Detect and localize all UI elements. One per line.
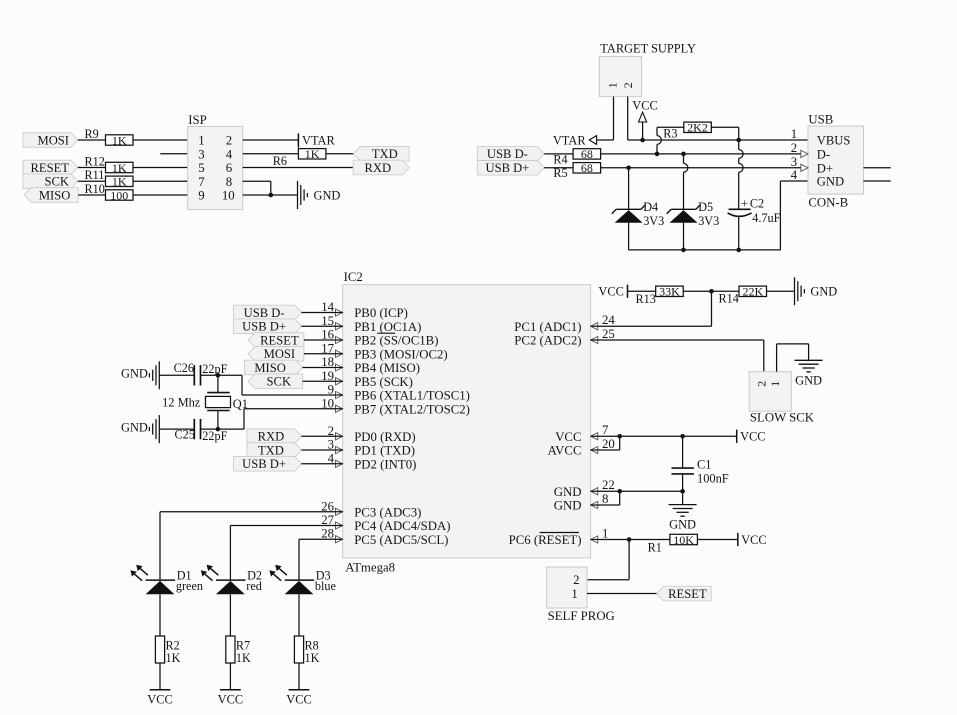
svg-text:PD0 (RXD): PD0 (RXD) <box>354 430 416 444</box>
svg-text:VCC: VCC <box>286 692 311 706</box>
net tag TXD to PD1 <box>247 443 302 458</box>
svg-text:GND: GND <box>554 499 582 513</box>
wire R10 to ISP pin 9 <box>133 194 188 196</box>
svg-text:PB4 (MISO): PB4 (MISO) <box>354 361 420 375</box>
svg-text:VCC: VCC <box>218 692 243 706</box>
supply VCC below R2 <box>147 690 172 707</box>
wire pin 25 to slow-sck jumper <box>591 340 764 372</box>
wire TXD to pin 3 <box>301 449 342 451</box>
svg-text:C26: C26 <box>174 361 194 375</box>
svg-text:R5: R5 <box>553 166 567 180</box>
wire slow-sck pin1 to ground <box>777 344 809 372</box>
wire pin 8 to pin 22 net <box>591 491 620 505</box>
resistor R3 2K2 <box>657 121 739 154</box>
resistor R14 22K <box>719 285 767 306</box>
pin 10 PB7 (XTAL2/TOSC2) <box>321 396 470 416</box>
crystal Q1 12 Mhz <box>162 375 248 429</box>
junction divider node <box>709 289 714 294</box>
svg-text:RESET: RESET <box>260 333 299 347</box>
svg-text:USB D+: USB D+ <box>242 320 286 334</box>
wire divider node to R14 <box>712 290 740 292</box>
capacitor C26 22pF <box>174 361 228 385</box>
wire pin to D1 <box>160 512 343 580</box>
net tag MOSI to PB3 <box>248 346 304 361</box>
svg-text:VBUS: VBUS <box>817 134 851 148</box>
pin 26 PC3 (ADC3) <box>321 499 421 519</box>
svg-text:1: 1 <box>791 127 797 141</box>
pin 14 PB0 (ICP) <box>321 300 408 320</box>
svg-text:R4: R4 <box>553 152 567 166</box>
svg-text:PB0 (ICP): PB0 (ICP) <box>354 306 408 320</box>
wire ISP pin 4 to R6 <box>243 153 299 155</box>
wire GND to C25 <box>159 428 193 430</box>
pin 19 PB5 (SCK) <box>321 369 413 389</box>
LED D1 green <box>130 565 203 595</box>
svg-text:PD1 (TXD): PD1 (TXD) <box>354 444 415 458</box>
net tag USB D+ to PD2 <box>234 456 302 471</box>
junction C2 branch on rail <box>736 138 741 143</box>
wire R9 to ISP pin 1 <box>133 139 188 141</box>
svg-text:PB1 (OC1A): PB1 (OC1A) <box>354 320 421 334</box>
svg-text:USB D-: USB D- <box>487 147 528 161</box>
net tag USB D- to PB0 <box>234 305 302 320</box>
resistor R13 33K <box>636 285 684 306</box>
svg-text:CON-B: CON-B <box>808 195 848 209</box>
junction C1 bottom <box>680 489 685 494</box>
svg-text:1K: 1K <box>112 175 127 189</box>
wire MISO to pin 18 <box>302 367 342 369</box>
svg-text:VCC: VCC <box>740 430 765 444</box>
wire USB shield stub lower <box>864 180 891 182</box>
svg-text:22pF: 22pF <box>202 362 227 376</box>
svg-text:R9: R9 <box>85 127 99 141</box>
svg-text:PB6 (XTAL1/TOSC1): PB6 (XTAL1/TOSC1) <box>354 389 470 403</box>
junction C1 top <box>680 434 685 439</box>
svg-text:+: + <box>741 197 748 211</box>
wire R6 to TXD tag <box>326 153 354 155</box>
wire ground rail to USB GND pin <box>780 181 808 250</box>
ground GND at C25 <box>121 415 159 443</box>
svg-text:D-: D- <box>817 148 830 162</box>
diode D4 zener 3V3 <box>612 168 664 250</box>
net tag TXD at ISP <box>354 146 410 161</box>
svg-text:GND: GND <box>817 175 844 189</box>
svg-text:22K: 22K <box>742 285 763 299</box>
net tag SCK to PB5 <box>248 374 302 389</box>
wire ISP pin 10 to ground <box>243 194 298 196</box>
wire R7 to VCC <box>229 663 231 690</box>
svg-text:blue: blue <box>315 579 336 593</box>
svg-text:24: 24 <box>602 313 615 327</box>
wire C1 bottom to ground <box>682 491 684 504</box>
svg-text:SCK: SCK <box>45 175 70 189</box>
wire D1 to R2 <box>159 594 161 636</box>
svg-text:1: 1 <box>606 82 620 88</box>
svg-text:USB D+: USB D+ <box>242 457 286 471</box>
svg-text:GND: GND <box>669 518 696 532</box>
jumper J target supply <box>599 41 696 96</box>
jumper SLOW SCK <box>749 372 815 425</box>
net tag SCK <box>23 174 78 189</box>
pin 4 PD2 (INT0) <box>328 451 417 471</box>
svg-text:SCK: SCK <box>267 375 292 389</box>
svg-text:1K: 1K <box>305 147 320 161</box>
svg-text:2: 2 <box>755 381 769 387</box>
wire D+ line to USB connector <box>601 167 802 169</box>
net tag RXD at ISP <box>353 160 409 175</box>
capacitor C2 4.7uF <box>728 140 781 250</box>
svg-text:22pF: 22pF <box>202 429 227 443</box>
wire D2 to R7 <box>229 594 231 636</box>
svg-text:USB: USB <box>808 113 833 127</box>
wire C25 to XTAL2 net <box>201 409 343 429</box>
net tag RESET at self-prog <box>657 586 711 601</box>
svg-text:red: red <box>246 579 262 593</box>
svg-text:D4: D4 <box>643 200 658 214</box>
LED D3 blue <box>269 565 335 595</box>
svg-text:68: 68 <box>581 161 593 175</box>
net tag USB D+ upper <box>477 161 544 176</box>
svg-text:TXD: TXD <box>372 147 398 161</box>
wire pin 7 to VCC <box>591 435 737 437</box>
svg-text:green: green <box>176 579 203 593</box>
svg-text:R14: R14 <box>719 292 739 306</box>
wire pin 22 to C1 bottom <box>591 490 683 492</box>
svg-text:3V3: 3V3 <box>643 214 664 228</box>
svg-text:D+: D+ <box>817 161 833 175</box>
svg-text:ISP: ISP <box>188 113 207 127</box>
op-amp IC2 ATmega8 body <box>343 270 591 575</box>
svg-text:5: 5 <box>198 161 204 175</box>
net tag MISO <box>24 188 78 203</box>
svg-text:PC6 (RESET): PC6 (RESET) <box>509 533 582 547</box>
connector ISP header <box>188 113 243 209</box>
svg-text:GND: GND <box>121 367 148 381</box>
resistor R9 1K <box>85 127 134 148</box>
resistor R11 1K <box>85 168 134 189</box>
svg-text:GND: GND <box>314 188 341 202</box>
svg-text:2: 2 <box>621 82 635 88</box>
ground GND at ISP <box>298 181 341 209</box>
svg-text:2: 2 <box>226 134 232 148</box>
svg-text:SELF PROG: SELF PROG <box>548 609 615 623</box>
supply VCC below R8 <box>286 690 311 707</box>
net tag USB D+ to PB1 <box>234 319 302 334</box>
svg-text:GND: GND <box>121 420 148 434</box>
wire pin 1 to R1 <box>591 539 670 541</box>
svg-text:PC1 (ADC1): PC1 (ADC1) <box>514 320 581 334</box>
svg-text:RESET: RESET <box>668 587 707 601</box>
resistor R1 10K <box>648 533 698 555</box>
wire pin to D2 <box>230 526 342 581</box>
pin 9 PB6 (XTAL1/TOSC1) <box>328 383 470 403</box>
svg-text:1: 1 <box>198 134 204 148</box>
wire R14 to ground <box>767 290 795 292</box>
svg-text:RESET: RESET <box>31 161 70 175</box>
supply VTAR at ISP <box>298 133 335 147</box>
supply VCC at R13 <box>598 285 627 299</box>
wire USB D- to pin 14 <box>301 312 342 314</box>
connector USB CON-B <box>791 113 864 210</box>
svg-text:VCC: VCC <box>741 533 766 547</box>
wire pin to D3 <box>299 539 343 580</box>
svg-text:25: 25 <box>602 327 615 341</box>
svg-text:3V3: 3V3 <box>698 214 719 228</box>
junction crystal top <box>216 373 221 378</box>
svg-text:VTAR: VTAR <box>553 134 586 148</box>
svg-text:SLOW SCK: SLOW SCK <box>750 410 815 424</box>
pin 16 PB2 (SS/OC1B) <box>321 328 438 348</box>
svg-text:PD2 (INT0): PD2 (INT0) <box>354 457 416 471</box>
wire ISP pin 8 to ground <box>243 181 271 195</box>
svg-text:3: 3 <box>791 155 797 169</box>
svg-text:4.7uF: 4.7uF <box>752 211 780 225</box>
pin 7 VCC <box>555 423 609 444</box>
pin 15 PB1 (OC1A) <box>321 314 421 334</box>
wire R1 to VCC <box>697 539 737 541</box>
wire D- line to USB connector <box>601 153 802 155</box>
svg-text:ATmega8: ATmega8 <box>345 561 395 575</box>
pin arrow USB D+ <box>801 164 808 171</box>
wire MOSI to pin 17 <box>304 353 343 355</box>
LED D2 red <box>201 565 262 595</box>
junction ISP ground <box>269 193 274 198</box>
svg-text:PC3 (ADC3): PC3 (ADC3) <box>354 505 421 519</box>
pin 18 PB4 (MISO) <box>321 355 420 375</box>
junction R3 to D- line <box>655 152 660 157</box>
junction reset node <box>627 537 632 542</box>
pin 22 GND <box>554 478 615 499</box>
resistor R5 68 <box>553 161 600 180</box>
capacitor C1 100nF <box>672 436 729 491</box>
wire reset node to self-prog pin2 <box>587 540 629 580</box>
svg-text:D5: D5 <box>698 200 713 214</box>
wire target-supply pin2 to VCC rail <box>628 97 808 140</box>
svg-text:PC4 (ADC4/SDA): PC4 (ADC4/SDA) <box>354 519 450 533</box>
svg-text:1: 1 <box>602 526 608 540</box>
svg-text:10K: 10K <box>673 533 694 547</box>
net tag MISO to PB4 <box>244 360 302 375</box>
svg-text:2: 2 <box>791 141 797 155</box>
jumper SELF PROG <box>547 567 615 623</box>
wire RESET tag to R12 <box>78 167 106 169</box>
wire SCK to pin 19 <box>303 380 343 382</box>
pin 2 PD0 (RXD) <box>328 424 416 444</box>
svg-text:3: 3 <box>198 147 204 161</box>
svg-text:MOSI: MOSI <box>38 133 70 147</box>
pin 3 PD1 (TXD) <box>328 438 415 458</box>
supply VCC right of C1 <box>737 430 766 444</box>
svg-text:1K: 1K <box>236 651 251 665</box>
svg-text:R12: R12 <box>85 154 105 168</box>
wire USB shield stub upper <box>864 167 891 169</box>
svg-text:7: 7 <box>198 175 205 189</box>
junction D5 on ground rail <box>681 248 686 253</box>
svg-text:2K2: 2K2 <box>687 121 708 135</box>
supply arrow VTAR <box>553 134 597 148</box>
pin 8 GND <box>554 492 609 513</box>
svg-text:6: 6 <box>226 161 233 175</box>
svg-text:68: 68 <box>581 147 593 161</box>
wire ISP pin 2 to VTAR <box>243 139 299 141</box>
svg-text:R1: R1 <box>648 541 662 555</box>
wire GND to C26 <box>159 374 193 376</box>
svg-text:VTAR: VTAR <box>302 134 335 148</box>
junction D5 on D- line <box>681 152 686 157</box>
svg-text:2: 2 <box>573 573 579 587</box>
svg-text:VCC: VCC <box>147 692 172 706</box>
resistor R7 1K <box>226 636 251 665</box>
svg-text:GND: GND <box>554 485 582 499</box>
svg-text:VCC: VCC <box>598 285 623 299</box>
svg-text:8: 8 <box>602 492 608 506</box>
supply VCC arrow <box>632 98 657 140</box>
svg-text:PB2 (SS/OC1B): PB2 (SS/OC1B) <box>354 334 438 348</box>
wire R13 to divider node <box>683 290 711 292</box>
pin 25 PC2 (ADC2) <box>514 327 615 348</box>
svg-text:7: 7 <box>602 423 609 437</box>
capacitor C25 22pF <box>175 419 228 443</box>
svg-text:VCC: VCC <box>632 98 657 112</box>
wire pin 20 to pin 7 net <box>591 436 620 450</box>
net tag RESET to PB2 <box>248 333 304 348</box>
net tag MOSI <box>23 133 78 148</box>
wire R8 to VCC <box>298 663 300 690</box>
svg-text:VCC: VCC <box>555 430 581 444</box>
svg-text:MISO: MISO <box>39 188 71 202</box>
svg-text:R10: R10 <box>85 182 105 196</box>
resistor R4 68 <box>553 147 600 166</box>
junction VCC stem on rail <box>640 138 645 143</box>
supply VCC below R7 <box>218 690 243 707</box>
net tag RXD to PD0 <box>247 429 302 444</box>
diode D5 zener 3V3 <box>667 154 720 250</box>
svg-text:IC2: IC2 <box>344 270 363 284</box>
svg-text:TXD: TXD <box>258 443 284 457</box>
wire R11 to ISP pin 7 <box>133 180 188 182</box>
resistor R8 1K <box>294 636 319 665</box>
svg-text:MOSI: MOSI <box>264 347 296 361</box>
ground GND below C1 <box>669 505 697 532</box>
svg-text:1K: 1K <box>305 651 320 665</box>
junction D4 on D+ line <box>626 166 631 171</box>
svg-text:100: 100 <box>110 188 128 202</box>
wire ground rail below diodes <box>629 249 781 251</box>
pin 17 PB3 (MOSI/OC2) <box>321 341 448 361</box>
wire RXD to pin 2 <box>301 435 342 437</box>
net tag RESET <box>23 160 78 175</box>
svg-text:MISO: MISO <box>254 361 286 375</box>
resistor R10 100 <box>85 182 134 203</box>
svg-text:GND: GND <box>810 285 837 299</box>
svg-text:PB7 (XTAL2/TOSC2): PB7 (XTAL2/TOSC2) <box>354 402 470 416</box>
svg-text:PB3 (MOSI/OC2): PB3 (MOSI/OC2) <box>354 347 448 361</box>
svg-text:TARGET SUPPLY: TARGET SUPPLY <box>600 41 696 55</box>
svg-text:8: 8 <box>226 175 232 189</box>
resistor R12 1K <box>85 154 134 175</box>
junction C2 on ground rail <box>736 248 741 253</box>
wire MISO tag to R10 <box>78 194 105 196</box>
svg-text:R3: R3 <box>663 127 677 141</box>
svg-text:PC2 (ADC2): PC2 (ADC2) <box>514 334 581 348</box>
svg-text:1K: 1K <box>112 161 127 175</box>
wire USB D+ to pin 15 <box>301 325 342 327</box>
svg-text:1: 1 <box>768 381 782 387</box>
resistor R6 1K <box>273 147 326 168</box>
svg-text:GND: GND <box>795 373 822 387</box>
pin 27 PC4 (ADC4/SDA) <box>321 513 450 533</box>
svg-text:R11: R11 <box>85 168 105 182</box>
svg-text:1K: 1K <box>112 133 127 147</box>
supply VCC at R1 <box>738 533 767 547</box>
svg-text:9: 9 <box>198 189 204 203</box>
svg-text:C2: C2 <box>750 197 764 211</box>
svg-text:33K: 33K <box>659 285 680 299</box>
pin arrow USB D- <box>801 150 808 157</box>
svg-text:USB D+: USB D+ <box>485 161 529 175</box>
ground GND at slow-sck <box>795 360 823 387</box>
pin 1 PC6 (RESET) <box>509 526 609 547</box>
wire SCK tag to R11 <box>78 180 106 182</box>
wire R2 to VCC <box>159 663 161 690</box>
svg-text:4: 4 <box>791 168 798 182</box>
svg-text:12 Mhz: 12 Mhz <box>162 396 201 410</box>
resistor R2 1K <box>155 636 180 665</box>
svg-text:R6: R6 <box>273 154 287 168</box>
wire VCC to R13 <box>628 290 656 292</box>
svg-text:1K: 1K <box>166 651 181 665</box>
wire D3 to R8 <box>298 594 300 636</box>
junction crystal bottom <box>216 427 221 432</box>
wire RESET to pin 16 <box>304 339 343 341</box>
svg-text:C25: C25 <box>175 428 195 442</box>
wire divider node to pin 24 <box>591 291 712 326</box>
wire stub ISP pin 3 <box>160 153 187 155</box>
junction GND join <box>617 489 622 494</box>
svg-text:1: 1 <box>571 587 577 601</box>
svg-text:PC5 (ADC5/SCL): PC5 (ADC5/SCL) <box>354 533 448 547</box>
svg-text:USB D-: USB D- <box>244 306 285 320</box>
svg-text:RXD: RXD <box>365 161 392 175</box>
svg-text:C1: C1 <box>697 458 711 472</box>
svg-text:22: 22 <box>602 478 615 492</box>
svg-text:20: 20 <box>602 437 615 451</box>
svg-text:10: 10 <box>222 189 235 203</box>
wire self-prog pin1 to RESET tag <box>587 592 657 594</box>
wire ISP pin 6 to RXD tag <box>243 167 354 169</box>
ground GND at C26 <box>121 361 159 389</box>
wire R12 to ISP pin 5 <box>133 167 188 169</box>
svg-text:4: 4 <box>226 147 233 161</box>
wire target-supply pin1 to VTAR <box>596 97 613 140</box>
wire USB D+ to pin 4 <box>301 463 342 465</box>
svg-text:R13: R13 <box>636 292 656 306</box>
wire USB D+ tag to R5 <box>544 167 573 169</box>
net tag USB D- upper <box>477 147 544 162</box>
wire MOSI tag to R9 <box>78 139 106 141</box>
wire C26 to XTAL1 net <box>201 375 343 395</box>
svg-text:100nF: 100nF <box>697 471 729 485</box>
svg-text:RXD: RXD <box>258 430 285 444</box>
wire USB D- tag to R4 <box>544 153 573 155</box>
pin 28 PC5 (ADC5/SCL) <box>321 527 448 547</box>
svg-text:PB5 (SCK): PB5 (SCK) <box>354 375 413 389</box>
pin 20 AVCC <box>548 437 615 458</box>
ground GND at R14 <box>795 277 838 305</box>
pin 24 PC1 (ADC1) <box>514 313 615 334</box>
svg-text:AVCC: AVCC <box>548 444 582 458</box>
junction AVCC join <box>617 434 622 439</box>
